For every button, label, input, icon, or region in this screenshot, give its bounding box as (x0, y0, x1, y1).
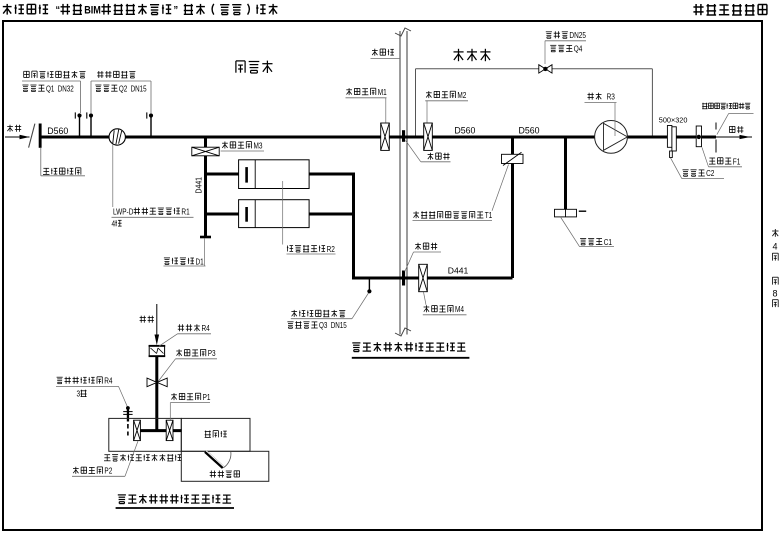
wall break mark bottom (395, 328, 411, 336)
label 密闭墙 (372, 49, 378, 56)
Q3 tap (368, 279, 370, 290)
svg-text:F1: F1 (733, 157, 741, 166)
sampling tap dot x=91 (89, 113, 93, 117)
label 密闭环 lower (415, 243, 421, 250)
ball valve Q4 (539, 65, 546, 73)
header title text (3, 4, 12, 15)
zone label 染毒区 (236, 61, 245, 73)
T1 riser pipe (511, 137, 514, 278)
sealed ring tick lower (402, 271, 405, 286)
filter branch top-left pipe (206, 173, 240, 176)
valve M1 密闭阀门M1 (381, 123, 390, 150)
valve M4 密闭阀门M4 (419, 264, 428, 291)
page number 第4页 共8页 (772, 229, 778, 237)
label 防毒通道兼简易洗消室 (104, 455, 111, 461)
sampling tap dot x=151 (149, 113, 153, 117)
header society name (693, 4, 703, 15)
svg-text:8: 8 (773, 289, 778, 299)
svg-text:Q4: Q4 (574, 45, 583, 54)
damper T1 调节阀 (502, 154, 524, 163)
fire damper F1 rect (696, 126, 701, 147)
valve P1 密闭阀门P1 (166, 420, 173, 440)
label 进风 (7, 125, 13, 132)
svg-text:P3: P3 (208, 349, 216, 358)
label 密闭阀门M1 (346, 88, 352, 95)
svg-text:D1: D1 (196, 257, 205, 266)
svg-text:D560: D560 (47, 126, 68, 136)
label 防火阀F1 (709, 158, 716, 164)
sampling tap tick x=79.5 (74, 112, 76, 118)
svg-text:R3: R3 (607, 93, 616, 102)
sampling tap riser x=91 (90, 116, 92, 137)
overpressure exhaust valve symbol (126, 406, 130, 410)
valve P3 密闭阀门P3 (147, 378, 157, 387)
label 排风 (140, 316, 146, 323)
label 过滤吸收器R2 (287, 246, 293, 252)
svg-text:M2: M2 (457, 91, 466, 100)
label 压差测量管配球阀Q2DN15 (97, 71, 103, 78)
inlet arrow (5, 136, 30, 138)
svg-text:DN32: DN32 (58, 84, 74, 93)
svg-text:DN15: DN15 (331, 321, 348, 330)
bypass pipe horizontal (416, 68, 539, 70)
label 插板阀C1 (580, 238, 586, 245)
label 密闭环 main (428, 153, 434, 160)
exhaust fan R4 排风机 (149, 346, 164, 356)
leader to R1 label (112, 145, 114, 208)
title 人防通风进风口部原理图 (352, 343, 360, 352)
label 密闭阀门M3 (222, 142, 228, 149)
svg-text:500×320: 500×320 (659, 116, 688, 125)
label 插板阀C2 (683, 170, 689, 177)
label 密闭阀门M4 (424, 305, 430, 312)
label 风机R3 (588, 93, 594, 100)
fire damper F1 dot (697, 135, 701, 139)
svg-text:DN15: DN15 (131, 84, 148, 93)
filter branch bottom-right pipe (309, 213, 356, 216)
svg-text:R4: R4 (202, 324, 211, 333)
label 手动对开多叶调节阀T1 (413, 211, 419, 218)
label 超压排气活门R4 3个 (57, 377, 63, 384)
svg-text:4: 4 (112, 220, 116, 229)
svg-text:P1: P1 (203, 393, 211, 402)
svg-text:P2: P2 (104, 467, 112, 476)
filter R1 circle 油网滤尘器 (109, 129, 125, 145)
svg-text:R1: R1 (181, 207, 190, 216)
label 排风机R4 (178, 324, 184, 331)
svg-text:Q1: Q1 (46, 84, 54, 93)
svg-text:R4: R4 (104, 377, 113, 386)
valve P2 密闭阀门P2 (134, 420, 141, 440)
label 排风竖井 (210, 471, 216, 478)
wall break mark top (395, 28, 411, 36)
label 密闭阀门M2 (426, 91, 432, 98)
zone label 清洁区 (454, 49, 464, 61)
outlet break tick (715, 123, 717, 130)
gate valve C1 插板阀 (555, 209, 577, 217)
blast valve bar 防爆波活门 (39, 124, 42, 148)
bypass riser left (415, 69, 417, 136)
leader to R2 label (282, 181, 284, 245)
svg-text:BIM: BIM (84, 5, 101, 17)
filter absorber box y=199.7 (239, 200, 310, 228)
svg-text:”: ” (174, 5, 179, 17)
exhaust inlet arrow (156, 304, 158, 342)
svg-text:M1: M1 (378, 88, 387, 97)
svg-text:LWP-D: LWP-D (113, 207, 134, 216)
sealed ring tick main (402, 130, 405, 142)
sampling tap riser x=79.5 (79, 116, 81, 137)
sealed wall line right (406, 31, 408, 335)
outlet line & arrow (716, 136, 752, 138)
C1 drop pipe (564, 137, 567, 216)
sampling tap riser x=151 (150, 116, 152, 137)
label 送风 (730, 126, 736, 132)
svg-text:M3: M3 (254, 141, 263, 150)
exhaust pipe upper (155, 357, 158, 431)
svg-text:R2: R2 (327, 245, 336, 254)
room 排风竖井 box (181, 451, 268, 481)
exhaust room pipe (134, 429, 182, 432)
sealed wall line left (399, 31, 401, 335)
sampling tap tick x=151 (146, 112, 148, 118)
svg-text:C2: C2 (706, 169, 715, 178)
svg-text:T1: T1 (485, 211, 493, 220)
label 接特殊时期送风管 (702, 103, 707, 109)
blast valve slash (29, 124, 35, 148)
bypass riser right (651, 69, 653, 136)
main supply pipe (41, 136, 716, 139)
svg-text:Q3: Q3 (319, 321, 327, 330)
label 防爆波活门 (40, 148, 42, 176)
svg-text:“: “ (56, 5, 61, 17)
label 扩散室 (205, 431, 211, 438)
plug D1 换气堵头 (200, 236, 211, 239)
svg-text:DN25: DN25 (569, 31, 586, 40)
room 扩散室 box (181, 418, 250, 451)
svg-text:C1: C1 (604, 238, 613, 247)
sampling tap tick x=91 (86, 112, 88, 118)
label 尾气监测取样管配截止阀Q3DN15 (291, 310, 297, 317)
filter branch bottom-left pipe (206, 213, 240, 216)
svg-text:M4: M4 (455, 305, 464, 314)
room 防毒通道 box (109, 418, 182, 451)
svg-text:3: 3 (77, 390, 81, 399)
label 增压管DN25配球阀Q4 (546, 32, 552, 39)
sampling tap dot x=79.5 (77, 113, 81, 117)
lower branch pipe (354, 277, 513, 280)
svg-text:D441: D441 (448, 265, 469, 275)
svg-text:D560: D560 (519, 125, 540, 135)
title 人防通风排风口部原理图 (118, 495, 126, 504)
valve M2 密闭阀门M2 (424, 123, 433, 150)
flap in shaft (205, 452, 223, 468)
fan R3 风机 (595, 120, 628, 153)
valve M3 密闭阀门M3 (192, 147, 219, 156)
label 换气堵头D1 (164, 258, 170, 265)
svg-text:Q2: Q2 (119, 84, 127, 93)
svg-text:4: 4 (773, 242, 778, 252)
gate valve C2 插板阀 (667, 126, 672, 148)
svg-text:D441: D441 (193, 177, 203, 194)
branch pipe vertical D441 (204, 137, 207, 237)
filter branch top-right pipe (309, 173, 356, 176)
label 密闭阀门P3 (176, 349, 182, 356)
label 密闭阀门P1 (171, 393, 177, 400)
svg-text:D560: D560 (454, 125, 475, 135)
collector pipe vertical (352, 173, 355, 280)
label 放射性监测取样管配球阀Q1DN32 (24, 71, 30, 77)
label 密闭阀门P2 (73, 467, 79, 474)
filter absorber box y=159.8 (239, 160, 310, 189)
